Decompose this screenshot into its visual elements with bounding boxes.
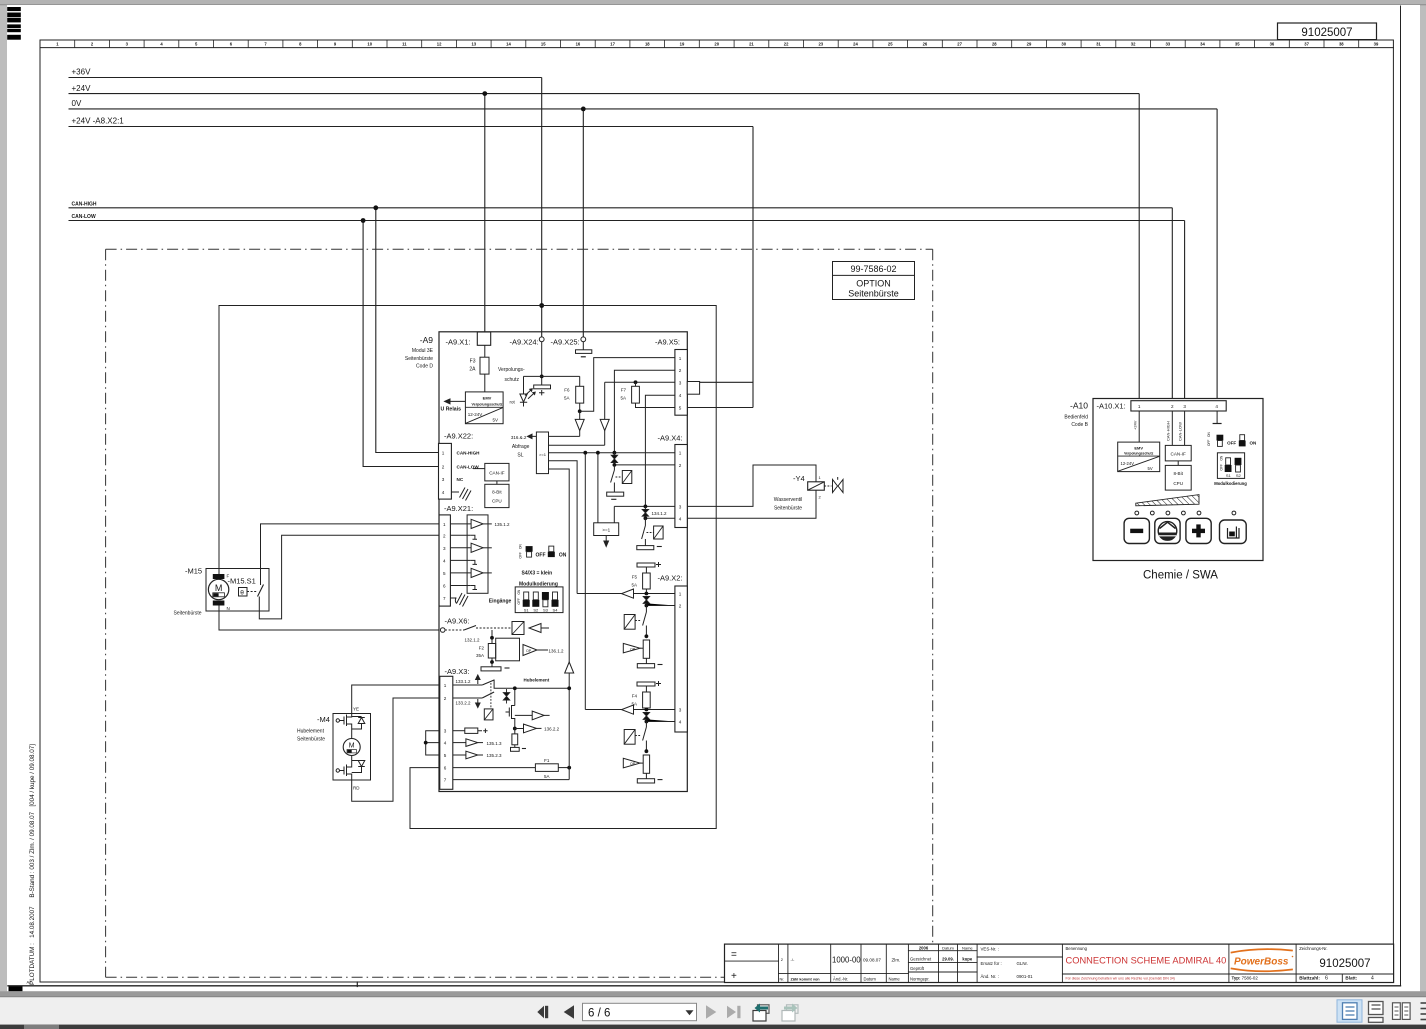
- LED row: [1135, 511, 1139, 515]
- svg-text:Datum: Datum: [942, 946, 954, 951]
- svg-text:CONNECTION SCHEME ADMIRAL 40: CONNECTION SCHEME ADMIRAL 40: [1066, 956, 1227, 966]
- svg-text:F2: F2: [479, 646, 485, 651]
- svg-text:8-Bit: 8-Bit: [1173, 471, 1183, 476]
- svg-text:U Relais: U Relais: [441, 407, 462, 413]
- junction 0V/A9.X25: [581, 107, 586, 112]
- svg-text:34: 34: [1200, 42, 1205, 47]
- svg-text:1: 1: [679, 451, 682, 456]
- logic tick X21: [450, 534, 470, 536]
- DIP switch S4: [553, 592, 558, 600]
- terminal F: [213, 574, 225, 579]
- wire +24V -A8.X2:1 drop to A9.X5: [687, 127, 753, 408]
- svg-text:4: 4: [442, 490, 445, 495]
- svg-text:SL: SL: [517, 452, 523, 458]
- svg-text:OFF: OFF: [1219, 464, 1223, 470]
- EMV converter A10: [1118, 442, 1160, 472]
- PowerBoss logo: [1232, 949, 1294, 971]
- title block frame: [725, 944, 1394, 982]
- power rail 0V: [69, 108, 1218, 110]
- MOSFET driver (136.2.2): [506, 686, 550, 728]
- svg-text:22: 22: [784, 42, 789, 47]
- svg-text:Verpolungsschutz: Verpolungsschutz: [1124, 452, 1154, 456]
- CPU box: [485, 484, 509, 507]
- svg-text:135.2.3: 135.2.3: [487, 753, 503, 758]
- OR gate >=1: [536, 432, 548, 474]
- svg-text:5V: 5V: [1148, 466, 1153, 471]
- svg-text:ON: ON: [519, 544, 523, 549]
- motor M15 enclosure: [206, 569, 269, 612]
- svg-text:-/-: -/-: [791, 957, 795, 962]
- wire A9.X21 pin1 to M15.S1 top: [261, 524, 440, 585]
- svg-text:0901-01: 0901-01: [1017, 974, 1034, 979]
- buffer triangle left (X2.3): [622, 705, 634, 714]
- svg-text:S1: S1: [1226, 473, 1232, 478]
- svg-text:M: M: [215, 583, 223, 593]
- svg-text:4: 4: [1215, 404, 1218, 409]
- svg-text:7: 7: [444, 778, 447, 783]
- svg-text:Modulkodierung: Modulkodierung: [1214, 481, 1247, 486]
- svg-text:-A9.X24:: -A9.X24:: [510, 338, 539, 347]
- svg-text:8-Bit: 8-Bit: [492, 490, 502, 495]
- motor M15: [208, 579, 228, 599]
- svg-text:-A9: -A9: [420, 335, 434, 345]
- svg-text:3: 3: [679, 708, 682, 713]
- ground plate K2: [637, 664, 654, 668]
- svg-text:316.&.2: 316.&.2: [511, 435, 527, 440]
- view-mode icon single page (selected): [1337, 1000, 1362, 1022]
- toolbar previous-view icon: [758, 1005, 770, 1014]
- CAN-IF box A10: [1165, 445, 1191, 461]
- svg-text:Seitenbürste: Seitenbürste: [848, 289, 899, 299]
- switch contact X6: [445, 629, 464, 631]
- toolbar prev-page icon: [564, 1005, 574, 1018]
- svg-text:3: 3: [679, 504, 682, 509]
- svg-text:rot: rot: [510, 400, 516, 405]
- diode D upper (M4): [352, 717, 365, 730]
- wire CAN-LOW drop to A10.X1 pin3: [1184, 221, 1186, 401]
- plug on X5 pins 3-4: [687, 382, 699, 395]
- relay coil K1: [622, 471, 632, 484]
- button chemie (fan icon): [1155, 518, 1180, 543]
- svg-text:27: 27: [957, 42, 962, 47]
- OR gate 2 >=1: [594, 523, 619, 536]
- svg-text:1: 1: [443, 522, 446, 527]
- toolbar last-page icon (disabled): [727, 1006, 736, 1018]
- svg-text:CAN-HIGH: CAN-HIGH: [457, 451, 481, 456]
- LED rot: [520, 376, 535, 406]
- DIP switch S1-S4: [515, 587, 563, 613]
- sense resistor: [512, 734, 518, 745]
- transistor Q lower (M4): [336, 756, 352, 781]
- fuse F6 5A: [579, 376, 581, 411]
- svg-text:Nr.: Nr.: [780, 978, 785, 982]
- svg-text:6: 6: [1325, 976, 1328, 982]
- panel A10 box: [1093, 399, 1263, 561]
- svg-text:28: 28: [992, 42, 997, 47]
- svg-text:A1: A1: [27, 980, 33, 985]
- registration marks top-left: [7, 7, 21, 11]
- svg-text:3: 3: [443, 546, 446, 551]
- svg-text:31: 31: [1096, 42, 1101, 47]
- relay contact K2: [643, 606, 647, 637]
- svg-text:+24V -A8.X2:1: +24V -A8.X2:1: [72, 117, 125, 126]
- fuse F7 5A: [636, 382, 675, 407]
- bottom gray band: [0, 991, 1426, 997]
- toolbar page box: [583, 1003, 697, 1020]
- wire gate to F5 circuit: [549, 461, 578, 594]
- battery plate + (F5): [637, 563, 655, 567]
- svg-text:-A9.X3:: -A9.X3:: [445, 667, 470, 676]
- capacitor X25: [576, 350, 592, 354]
- svg-text:91025007: 91025007: [1301, 27, 1352, 39]
- svg-text:10: 10: [367, 42, 372, 47]
- column ruler numbers: [75, 40, 1359, 48]
- svg-text:6 / 6: 6 / 6: [588, 1007, 610, 1019]
- svg-text:S2: S2: [1236, 473, 1242, 478]
- svg-text:Gezeichnet: Gezeichnet: [910, 957, 932, 962]
- svg-text:-M15.S1: -M15.S1: [228, 577, 256, 586]
- svg-text:-M4: -M4: [317, 715, 330, 724]
- svg-text:Verpolungs-: Verpolungs-: [498, 367, 525, 373]
- DIP switch S1: [524, 592, 529, 600]
- svg-text:OPTION: OPTION: [856, 279, 891, 289]
- svg-text:Änd. Nr. :: Änd. Nr. :: [981, 974, 999, 979]
- svg-text:ON: ON: [1207, 432, 1211, 437]
- motor M4: [343, 739, 360, 756]
- svg-text:136.2.2: 136.2.2: [544, 727, 560, 732]
- resistor K2: [643, 640, 649, 658]
- wire F6 to X5 pin1: [580, 358, 675, 412]
- svg-text:Code D: Code D: [416, 364, 433, 370]
- wire M4.YE to A9.X3 pin1: [352, 685, 440, 714]
- dashed link + coil (lift drive): [490, 683, 492, 709]
- svg-text:3: 3: [679, 380, 682, 385]
- svg-text:2: 2: [679, 463, 682, 468]
- view-mode icon partial right: [1421, 1002, 1426, 1004]
- wire pin1 to EMV: [1138, 411, 1140, 442]
- svg-text:135.1.3: 135.1.3: [487, 741, 503, 746]
- button tank: [1220, 520, 1247, 544]
- wire +36V drop to A9.X24: [541, 78, 543, 338]
- svg-text:S4/X3 = klein: S4/X3 = klein: [522, 571, 553, 577]
- svg-text:Normgepr.: Normgepr.: [910, 977, 930, 982]
- svg-text:12-24V: 12-24V: [468, 412, 483, 417]
- button plus: [1186, 518, 1211, 543]
- option label box 99-7586-02: [833, 262, 915, 300]
- wire to X4 pin2: [614, 464, 675, 466]
- wire X5 pin4 net: [645, 395, 675, 506]
- svg-text:11: 11: [402, 42, 407, 47]
- logic tick X21: [450, 585, 470, 587]
- zener between X3.1/X3.2: [503, 693, 509, 700]
- junction CAN-HIGH drop: [373, 205, 378, 210]
- relay contact K1: [611, 465, 615, 492]
- svg-text:3: 3: [442, 477, 445, 482]
- view-mode icon continuous: [1369, 1002, 1384, 1015]
- zener pair X4.1-X4.2: [611, 455, 617, 462]
- ground plate MOSFET: [511, 747, 520, 751]
- fuse F5 5A: [645, 567, 647, 573]
- svg-text:Zlm.: Zlm.: [892, 958, 901, 963]
- svg-text:4: 4: [444, 741, 447, 746]
- svg-text:Code B: Code B: [1071, 422, 1088, 428]
- svg-text:3: 3: [444, 729, 447, 734]
- wire branch to gate2: [597, 453, 599, 523]
- power rail +24V -A8.X2:1: [69, 126, 754, 128]
- shield symbol X22 pin4: [451, 488, 471, 501]
- wire CAN-HIGH drop to A9.X22 pin1: [376, 208, 439, 453]
- wire X24 down: [541, 342, 543, 385]
- svg-text:-A9.X2:: -A9.X2:: [658, 574, 683, 583]
- junction +36V on outer wire: [539, 303, 544, 308]
- svg-text:CPU: CPU: [492, 499, 502, 504]
- relay contact K4: [642, 518, 646, 545]
- wire pin4 stub: [1216, 411, 1218, 424]
- ground plate K1: [607, 492, 624, 496]
- svg-text:37: 37: [1304, 42, 1309, 47]
- svg-text:Hubelement: Hubelement: [297, 729, 325, 735]
- wire CAN-LOW to CAN-IF: [473, 468, 485, 470]
- svg-text:136.1.2: 136.1.2: [549, 648, 565, 653]
- input block box: [467, 515, 488, 593]
- op buffer K2: [623, 643, 640, 653]
- svg-text:Typ: 7586-02: Typ: 7586-02: [1232, 975, 1259, 980]
- svg-text:29: 29: [1027, 42, 1032, 47]
- svg-text:-A9.X4:: -A9.X4:: [658, 434, 683, 443]
- svg-text:OFF: OFF: [536, 553, 546, 559]
- node X24/Verpolungsschutz: [540, 375, 544, 379]
- svg-text:Für diese Zeichnung behalten w: Für diese Zeichnung behalten wir uns all…: [1066, 976, 1175, 980]
- svg-text:+: +: [731, 971, 737, 982]
- wire +24V drop to A9.X1: [484, 94, 486, 333]
- buffer triangle left (X2.1): [622, 589, 634, 598]
- svg-text:25: 25: [888, 42, 893, 47]
- svg-text:35A: 35A: [476, 653, 484, 658]
- module A9 box: [439, 332, 687, 792]
- svg-text:Hubelement: Hubelement: [524, 678, 550, 683]
- svg-text:Blattzahl:: Blattzahl:: [1299, 976, 1320, 981]
- wire +24V drop to A10.X1 pin1: [1138, 94, 1140, 401]
- svg-text:-A9.X1:: -A9.X1:: [446, 338, 471, 347]
- svg-text:91025007: 91025007: [1319, 958, 1370, 970]
- relay coil K2: [624, 615, 635, 630]
- current sense box + OP (136.1.2): [496, 638, 520, 661]
- wire A9.X1 to F3: [484, 345, 486, 357]
- svg-text:θ: θ: [240, 590, 244, 597]
- wire gate to T2: [549, 444, 605, 446]
- terminal N: [213, 601, 225, 606]
- contact X3.1: [453, 684, 482, 686]
- svg-text:VES-Nr. :: VES-Nr. :: [981, 947, 999, 952]
- svg-text:Modul 3E: Modul 3E: [412, 348, 434, 354]
- svg-text:Änd.-Nr.: Änd.-Nr.: [833, 977, 848, 982]
- svg-text:Zähl kommt von: Zähl kommt von: [791, 978, 821, 982]
- svg-text:-A9.X25:: -A9.X25:: [551, 338, 580, 347]
- svg-text:24: 24: [853, 42, 858, 47]
- svg-text:Seitenbürste: Seitenbürste: [405, 356, 433, 362]
- relay contact K3: [643, 722, 647, 752]
- logic tick X21: [450, 559, 470, 561]
- svg-text:F5: F5: [632, 575, 638, 580]
- wire X3 pin7: [453, 779, 569, 781]
- svg-text:YE: YE: [353, 707, 359, 712]
- svg-text:-A9.X6:: -A9.X6:: [445, 617, 470, 626]
- buffer triangle X6: [529, 624, 541, 633]
- wire X4 pin4 row: [645, 517, 675, 519]
- svg-text:99-7586-02: 99-7586-02: [850, 264, 896, 274]
- svg-text:134.1.2: 134.1.2: [652, 511, 668, 516]
- svg-text:F3: F3: [470, 359, 476, 365]
- power rail +36V: [69, 77, 542, 79]
- svg-text:M: M: [349, 743, 355, 750]
- op buffer 136.2.2: [524, 724, 537, 733]
- svg-text:4: 4: [679, 516, 682, 521]
- wire M15.N to A9.X6: [219, 606, 439, 631]
- svg-text:2: 2: [1171, 404, 1174, 409]
- wire pin3 to CAN-IF: [1184, 411, 1186, 445]
- svg-text:5A: 5A: [564, 396, 570, 401]
- gate input arrow 316.&.2: [528, 434, 537, 438]
- valve symbol: [824, 485, 831, 487]
- svg-text:2: 2: [679, 368, 682, 373]
- svg-text:PowerBoss: PowerBoss: [1234, 957, 1289, 968]
- CAN-IF box: [485, 463, 509, 481]
- wire X5 pin2 net: [614, 370, 675, 453]
- svg-text:5: 5: [443, 571, 446, 576]
- svg-text:CAN-IF: CAN-IF: [489, 471, 505, 476]
- svg-text:7: 7: [443, 596, 446, 601]
- zener 134.1.2: [642, 509, 648, 516]
- buffer X3.4 135.1.3: [453, 742, 466, 744]
- svg-text:-A9.X5:: -A9.X5:: [655, 338, 680, 347]
- svg-text:21: 21: [749, 42, 754, 47]
- gate2 output arrow: [604, 536, 609, 547]
- svg-text:5: 5: [679, 406, 682, 411]
- buffer X3.5 135.2.3: [453, 754, 466, 756]
- svg-text:1: 1: [679, 356, 682, 361]
- svg-text:OFF: OFF: [1207, 440, 1211, 446]
- svg-text:3: 3: [1183, 404, 1186, 409]
- svg-text:-M15: -M15: [185, 567, 202, 576]
- wire pin2 to CAN-IF: [1171, 411, 1173, 445]
- wire CAN-LOW drop to A9.X22 pin2: [363, 221, 438, 467]
- svg-text:Modulkodierung: Modulkodierung: [519, 581, 558, 587]
- shield symbol X21 pin7: [450, 593, 468, 607]
- svg-text:4: 4: [679, 393, 682, 398]
- svg-text:ON: ON: [559, 553, 567, 559]
- svg-text:6: 6: [444, 766, 447, 771]
- svg-text:OFF: OFF: [1227, 441, 1236, 446]
- svg-text:2: 2: [443, 533, 446, 538]
- svg-text:Geprüft: Geprüft: [910, 966, 925, 971]
- svg-text:132.1.2: 132.1.2: [465, 638, 481, 643]
- svg-text:Name: Name: [962, 946, 973, 951]
- node F7 top: [634, 380, 638, 384]
- wire +36V loop (M15.F / A9.X3.6 net): [219, 306, 716, 829]
- svg-text:39: 39: [1374, 42, 1379, 47]
- svg-text:Ersatz für :: Ersatz für :: [981, 961, 1002, 966]
- svg-text:5A: 5A: [631, 583, 637, 588]
- svg-text:OFF: OFF: [519, 552, 523, 558]
- svg-text:4: 4: [679, 720, 682, 725]
- wire gate to X4 pin1: [549, 452, 675, 454]
- svg-text:09.08.07: 09.08.07: [863, 958, 881, 963]
- svg-text:S3: S3: [543, 607, 549, 612]
- svg-text:F4: F4: [632, 694, 638, 699]
- ground plate K4: [637, 546, 654, 550]
- svg-text:2: 2: [444, 696, 447, 701]
- svg-text:5V: 5V: [493, 418, 499, 423]
- svg-text:OP: OP: [630, 762, 636, 766]
- common wire to hub rail: [494, 680, 569, 689]
- svg-text:NC: NC: [457, 477, 464, 482]
- svg-text:1: 1: [444, 683, 447, 688]
- wire branch to F4 circuit: [584, 453, 586, 710]
- svg-text:Bedienfeld: Bedienfeld: [1064, 415, 1088, 421]
- svg-text:F1: F1: [544, 758, 550, 763]
- DIP switch S3: [542, 592, 549, 600]
- svg-text:Chemie / SWA: Chemie / SWA: [1143, 570, 1218, 582]
- ground plate F2: [481, 667, 501, 671]
- wire X4.3 to Y4 coil pin1: [687, 465, 816, 506]
- svg-text:12-24V: 12-24V: [1121, 461, 1135, 466]
- svg-text:5: 5: [444, 753, 447, 758]
- wire CAN-HIGH drop to A10.X1 pin2: [1171, 208, 1173, 401]
- op buffer K3: [623, 758, 640, 768]
- toolbar first-page icon: [537, 1006, 544, 1018]
- svg-text:>=1: >=1: [602, 528, 610, 533]
- svg-text:16: 16: [576, 42, 581, 47]
- capacitor verpolungsschutz: [534, 385, 551, 389]
- svg-text:Datum: Datum: [864, 977, 877, 982]
- svg-text:-A9.X22:: -A9.X22:: [444, 432, 473, 441]
- svg-text:2: 2: [442, 465, 445, 470]
- toolbar next-view icon (disabled): [787, 1005, 799, 1014]
- svg-text:EMV: EMV: [483, 396, 492, 401]
- svg-text:S1: S1: [524, 607, 530, 612]
- view-mode icon two pages: [1393, 1003, 1401, 1020]
- svg-text:CAN-IF: CAN-IF: [1171, 452, 1187, 457]
- svg-text:Zeichnungs-Nr.: Zeichnungs-Nr.: [1299, 946, 1327, 951]
- svg-text:+24V: +24V: [72, 84, 92, 93]
- svg-text:Abfrage: Abfrage: [512, 444, 530, 450]
- svg-text:33: 33: [1165, 42, 1170, 47]
- toolbar next-page icon (disabled): [706, 1005, 716, 1018]
- svg-text:1: 1: [442, 451, 445, 456]
- relay coil X6: [512, 622, 524, 635]
- svg-text:23: 23: [818, 42, 823, 47]
- svg-text:4: 4: [1371, 976, 1374, 982]
- svg-text:N: N: [227, 606, 230, 611]
- volume wedge indicator: [1136, 495, 1199, 506]
- svg-text:ON: ON: [1219, 455, 1223, 460]
- DIP switch S2: [533, 592, 538, 600]
- svg-text:Blatt:: Blatt:: [1345, 976, 1357, 981]
- resistor K3: [643, 755, 649, 773]
- svg-text:CAN-LOW: CAN-LOW: [72, 214, 96, 220]
- svg-text:0V: 0V: [72, 99, 82, 108]
- svg-text:14: 14: [506, 42, 511, 47]
- svg-text:-A10.X1:: -A10.X1:: [1097, 402, 1126, 411]
- svg-text:F6: F6: [564, 388, 570, 393]
- svg-text:1: 1: [1138, 404, 1141, 409]
- buffer triangle T2: [600, 419, 609, 430]
- svg-text:26: 26: [923, 42, 928, 47]
- wire 0V drop to A10.X1 pin4: [1216, 109, 1218, 401]
- wire X4 pin3 net: [614, 505, 675, 507]
- svg-text:kupe: kupe: [962, 957, 972, 962]
- node F6 bottom: [578, 409, 582, 413]
